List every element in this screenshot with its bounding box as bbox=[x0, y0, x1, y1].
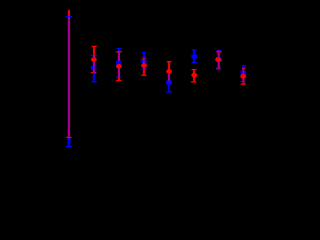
cluster 6 blue error bar (x=194.1) bbox=[193, 50, 195, 62]
cluster 8 blue-only upper bar segment (x=243.4) bbox=[242, 66, 244, 68]
cluster 5 overlap bar stripe over square top bbox=[168, 80, 170, 81]
cluster 8 blue square marker bbox=[241, 71, 247, 75]
cluster 6 red top cap bbox=[192, 69, 197, 70]
cluster 7 red bottom cap (dim) bbox=[216, 69, 221, 70]
cluster 3 red top cap bbox=[116, 51, 122, 52]
cluster 8 red top cap bbox=[242, 68, 246, 69]
cluster 2 blue bottom cap bbox=[91, 81, 97, 82]
cluster 6 red circle marker bbox=[191, 73, 197, 78]
cluster 4 blue-only upper bar segment (x=144) bbox=[143, 53, 145, 59]
cluster 7 red circle marker bbox=[215, 57, 221, 62]
cluster 3 blue-only upper bar segment (x=118.9) bbox=[118, 49, 120, 52]
cluster 4 red top cap bbox=[142, 58, 146, 59]
cluster 2 red bottom cap bbox=[91, 72, 97, 73]
cluster 7 blue bottom cap bbox=[216, 67, 221, 68]
cluster 3 blue square marker bbox=[116, 61, 122, 65]
cluster 6 red error bar (x=194.1) bbox=[193, 70, 195, 82]
cluster 2 blue square marker bbox=[91, 66, 97, 70]
cluster 1 red bottom cap bbox=[66, 137, 71, 138]
cluster 7 red+blue overlap bar (magenta) bbox=[218, 50, 220, 68]
cluster 5 blue bottom cap bbox=[166, 91, 172, 92]
cluster 4 red+blue overlap bar (magenta) bbox=[143, 58, 145, 69]
cluster 1 blue-only lower bar segment bbox=[68, 137, 71, 146]
cluster 7 blue square marker bbox=[216, 57, 222, 61]
cluster 7 blue top cap (x=218.7) bbox=[216, 50, 221, 51]
cluster 2 red top cap bbox=[92, 46, 97, 47]
cluster 8 overlap bar stripe over square bbox=[242, 71, 244, 75]
cluster 4 blue bottom cap bbox=[141, 69, 147, 70]
cluster 3 red bottom cap bbox=[116, 80, 122, 81]
cluster 7 overlap bar stripe over square top bbox=[218, 57, 220, 58]
cluster 3 red-only lower bar segment bbox=[118, 78, 120, 80]
cluster 1 red+blue overlap bar (magenta) bbox=[68, 17, 70, 137]
cluster 2 red-only upper bar segment (x=94) bbox=[93, 46, 95, 55]
cluster 4 overlap bar stripe over square bbox=[143, 59, 145, 63]
cluster 1 blue square marker (small) bbox=[67, 138, 70, 141]
cluster 6 blue bottom cap bbox=[191, 62, 196, 63]
cluster 8 red-only lower bar segment bbox=[242, 82, 244, 84]
cluster 3 blue bottom cap bbox=[116, 77, 122, 78]
cluster 1 blue bottom cap bbox=[66, 146, 72, 147]
cluster 8 red+blue overlap bar (magenta) bbox=[242, 68, 244, 82]
cluster 5 red-only upper bar segment (x=169) bbox=[168, 62, 170, 73]
cluster 2 blue-only lower bar segment bbox=[93, 73, 95, 81]
cluster 1 red upper-limit bar with fading top (x=68.9) bbox=[68, 9, 70, 11]
cluster 2 blue top cap bbox=[91, 55, 97, 56]
cluster 4 red bottom cap bbox=[141, 75, 146, 76]
cluster 8 red circle marker bbox=[240, 74, 246, 79]
cluster 6 blue square marker bbox=[191, 55, 197, 59]
cluster 7 red top cap bbox=[216, 51, 221, 52]
cluster 4 blue top cap bbox=[142, 52, 146, 53]
cluster 2 overlap bar stripe over square bbox=[93, 66, 95, 70]
cluster 5 blue square marker bbox=[166, 80, 172, 84]
cluster 4 red circle marker bbox=[141, 63, 147, 68]
cluster 6 blue top cap bbox=[192, 49, 197, 50]
cluster 8 blue bottom cap bbox=[240, 81, 246, 82]
cluster 5 red circle marker bbox=[166, 69, 172, 74]
cluster 2 red circle marker bbox=[91, 57, 97, 62]
cluster 5 red+blue overlap bar (magenta) bbox=[168, 73, 170, 80]
cluster 6 red bottom cap bbox=[191, 81, 196, 82]
cluster 4 red-only lower bar segment bbox=[143, 70, 145, 75]
cluster 3 red circle marker bbox=[116, 64, 122, 69]
cluster 5 blue-only lower bar segment bbox=[168, 85, 170, 92]
cluster 4 blue square marker bbox=[141, 59, 147, 63]
cluster 3 red+blue overlap bar (magenta) bbox=[118, 52, 120, 78]
cluster 1 blue top cap bbox=[66, 16, 72, 17]
cluster 2 red+blue overlap bar (magenta) bbox=[93, 55, 95, 73]
cluster 8 red bottom cap bbox=[241, 84, 246, 85]
cluster 5 red top cap bbox=[167, 61, 172, 62]
cluster 3 blue top cap bbox=[117, 48, 122, 49]
cluster 8 blue top cap bbox=[242, 65, 246, 66]
cluster 5 red bottom cap (mostly hidden) bbox=[167, 80, 171, 81]
